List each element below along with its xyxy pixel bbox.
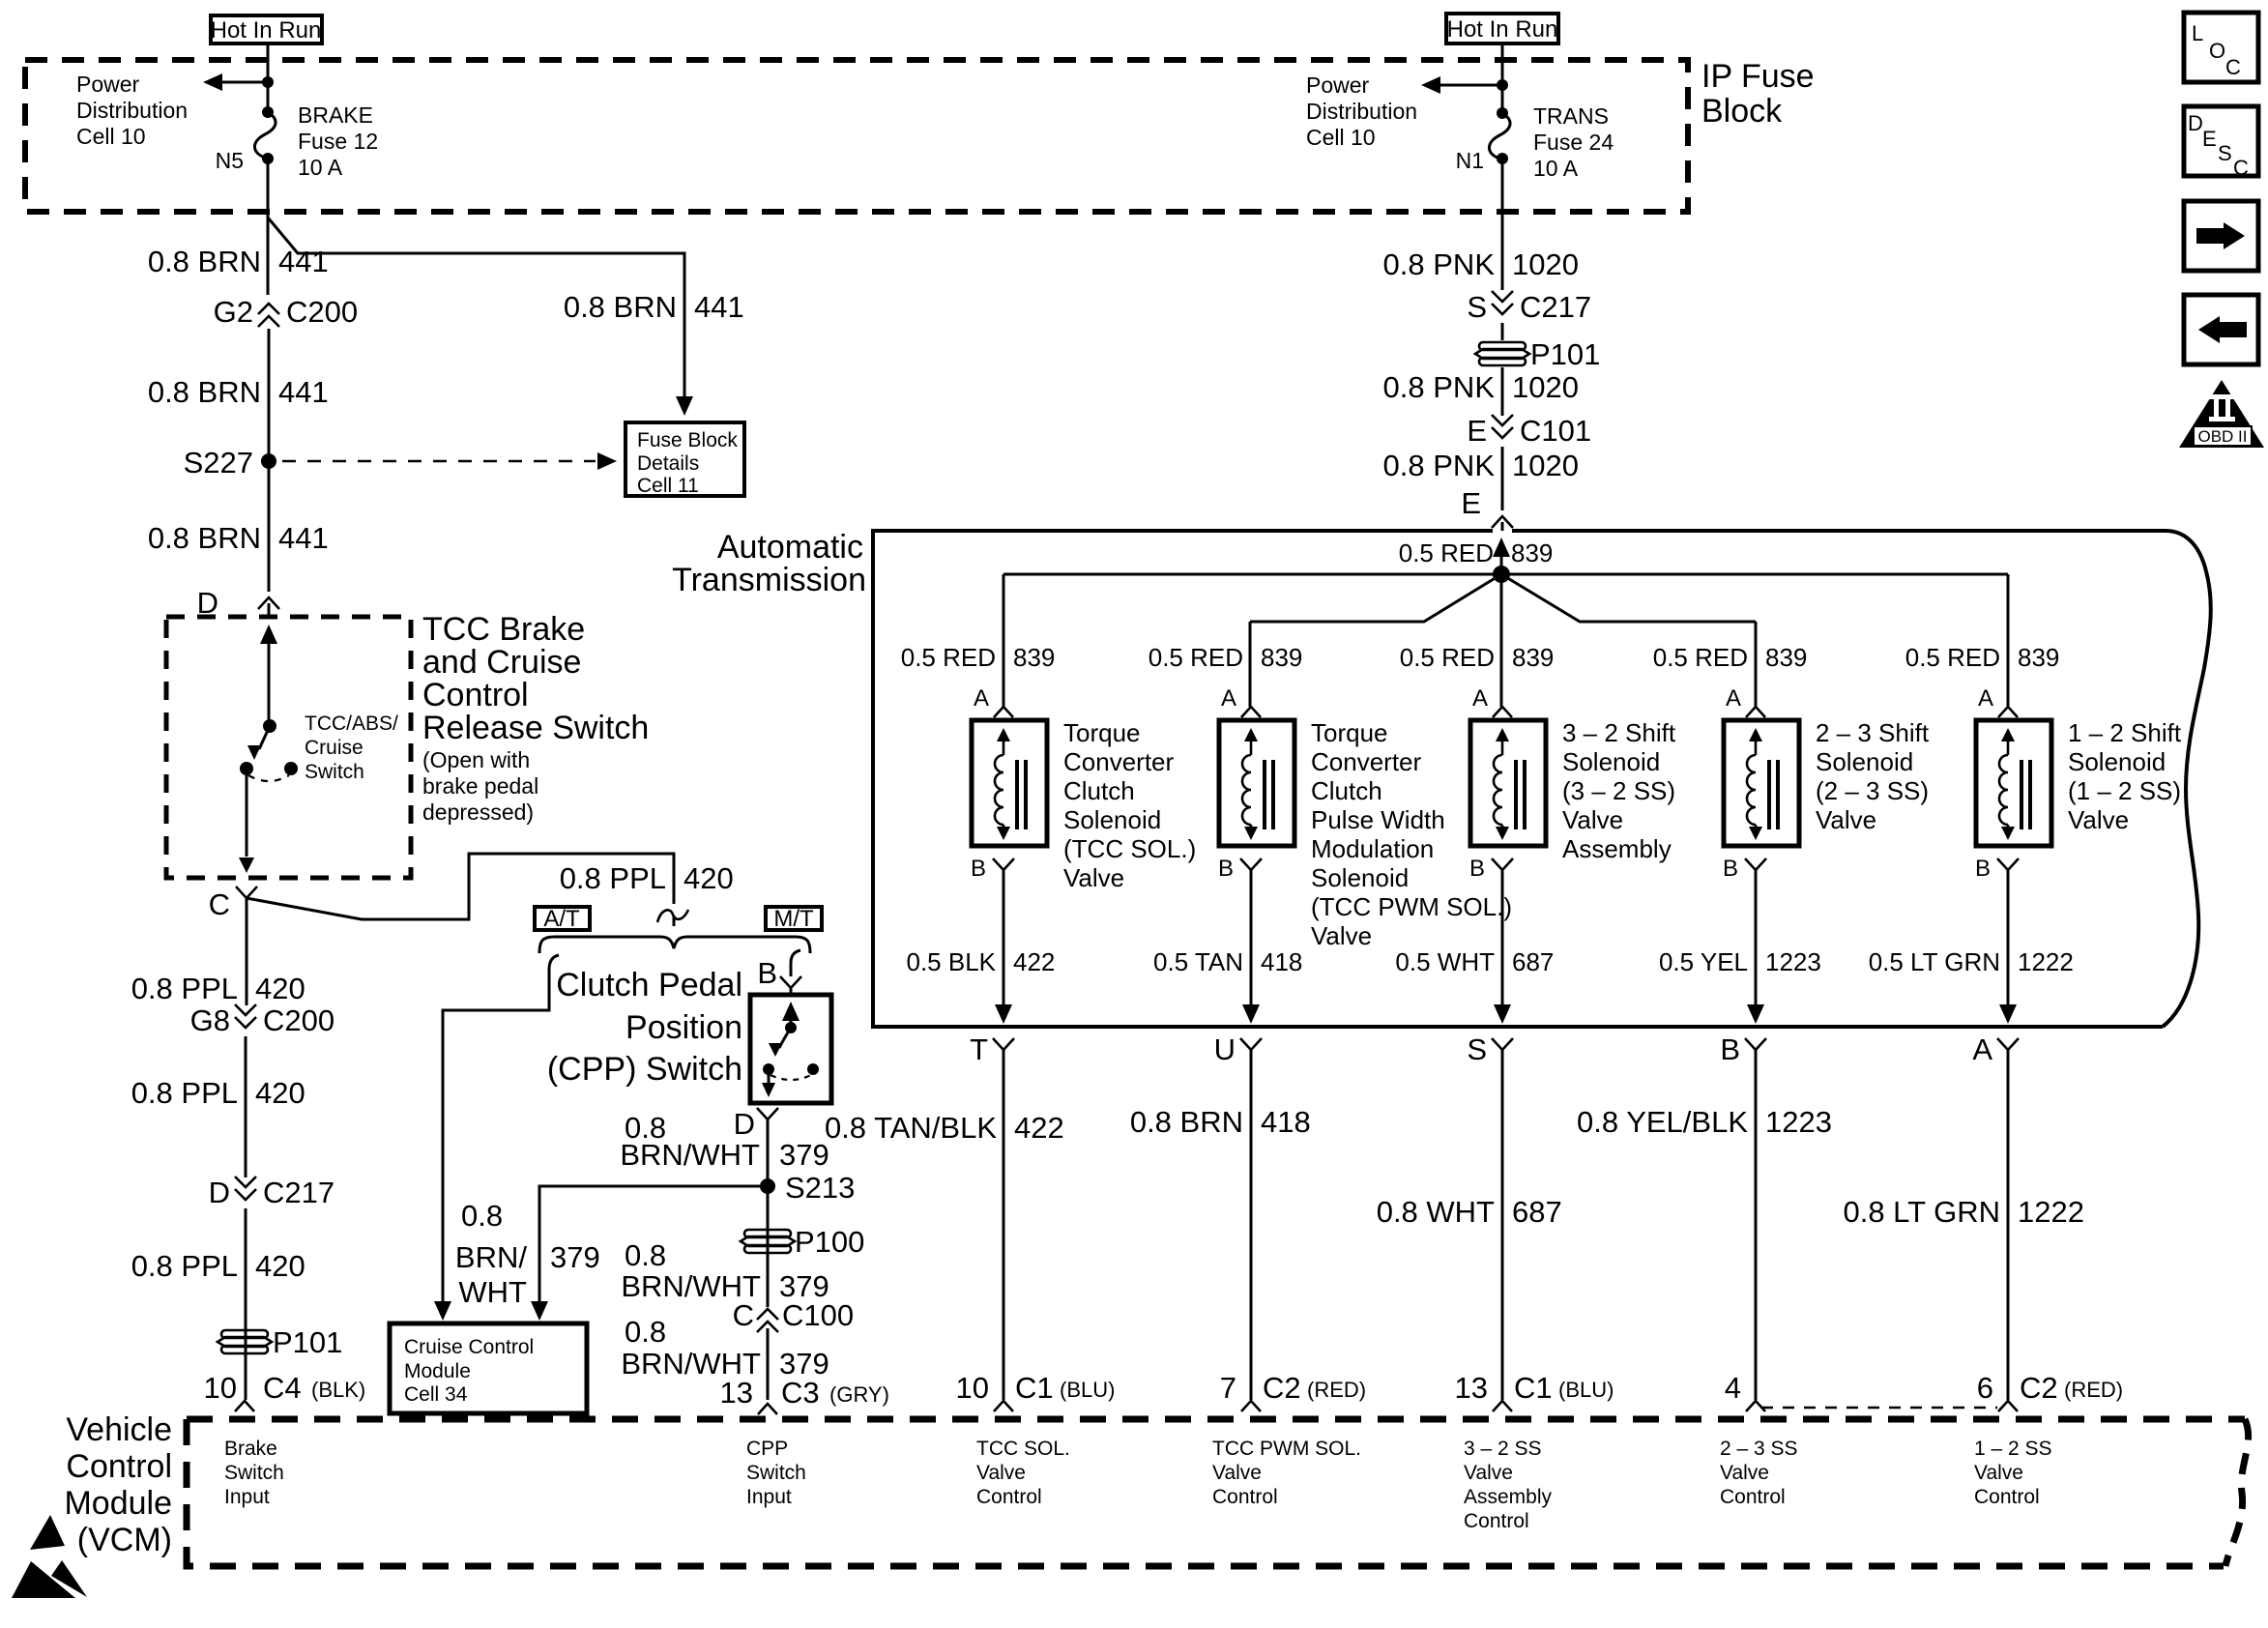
svg-text:A: A — [1726, 685, 1741, 712]
svg-text:13: 13 — [720, 1376, 753, 1410]
svg-text:Switch: Switch — [224, 1462, 284, 1484]
svg-text:Input: Input — [224, 1486, 270, 1508]
svg-text:10: 10 — [956, 1371, 989, 1405]
node: junction to Power Distribution — [262, 76, 274, 88]
switch pivot dot — [263, 719, 276, 733]
bus 0.5 RED horizontal — [1003, 573, 2008, 576]
svg-text:Hot In Run: Hot In Run — [211, 17, 322, 44]
svg-text:441: 441 — [278, 375, 329, 409]
svg-text:839: 839 — [1261, 643, 1302, 672]
svg-text:0.8 WHT: 0.8 WHT — [1377, 1195, 1495, 1229]
svg-text:7: 7 — [1220, 1371, 1236, 1405]
wire TCC PWM solenoid to case — [1250, 870, 1253, 1007]
A/T tag box — [535, 907, 590, 930]
svg-text:T: T — [970, 1032, 988, 1066]
wire break squiggle — [657, 910, 688, 922]
svg-text:C217: C217 — [1520, 290, 1591, 324]
svg-text:0.8 BRN: 0.8 BRN — [564, 290, 677, 324]
wire 0.8 BRN 441 segment 1 — [267, 218, 270, 295]
svg-text:Valve: Valve — [2068, 805, 2129, 834]
wire pin B to VCM — [1755, 1050, 1758, 1400]
svg-text:A: A — [1221, 685, 1236, 712]
splice S213 — [760, 1178, 775, 1194]
dashed arrow S227 to Fuse Block Details — [282, 460, 596, 463]
svg-text:441: 441 — [278, 245, 329, 278]
svg-text:BRN/: BRN/ — [455, 1240, 527, 1274]
svg-text:6: 6 — [1977, 1371, 1993, 1405]
CPP output wire — [768, 1069, 771, 1083]
svg-text:422: 422 — [1013, 947, 1055, 976]
svg-text:418: 418 — [1261, 947, 1302, 976]
svg-text:Solenoid: Solenoid — [1562, 747, 1660, 776]
M/T branch wire to CPP switch — [791, 950, 800, 976]
svg-text:CPP: CPP — [746, 1438, 788, 1460]
Hot In Run box (left) — [211, 15, 322, 44]
svg-text:0.8 BRN: 0.8 BRN — [148, 245, 261, 278]
svg-text:839: 839 — [2018, 643, 2059, 672]
svg-text:B: B — [1218, 856, 1234, 882]
svg-text:(Open with: (Open with — [422, 747, 530, 772]
Vehicle Control Module dashed box — [187, 1416, 2245, 1423]
svg-text:0.8: 0.8 — [625, 1238, 666, 1272]
svg-text:Assembly: Assembly — [1562, 834, 1672, 863]
brace under A/T M/T — [539, 937, 810, 953]
svg-text:P101: P101 — [1530, 337, 1600, 371]
IP Fuse Block dashed box — [25, 60, 1688, 212]
svg-text:420: 420 — [255, 972, 305, 1005]
solenoid coil TCC solenoid — [972, 720, 1047, 846]
switch arm — [259, 726, 270, 749]
svg-text:3 – 2 SS: 3 – 2 SS — [1464, 1438, 1542, 1460]
svg-text:L: L — [2192, 21, 2203, 45]
switch TCC/ABS/Cruise: wire with up arrow — [268, 638, 271, 726]
wire 1-2 shift solenoid to case — [2007, 870, 2010, 1007]
Automatic Transmission box outline — [873, 531, 2163, 1027]
svg-text:Position: Position — [625, 1009, 742, 1046]
svg-text:0.8 PPL: 0.8 PPL — [131, 1249, 238, 1283]
svg-text:Automatic: Automatic — [717, 529, 863, 566]
switch throw dashed arc — [248, 775, 289, 781]
svg-text:Power: Power — [1306, 73, 1370, 98]
svg-text:Assembly: Assembly — [1464, 1486, 1553, 1508]
Hot In Run box (right) — [1446, 14, 1558, 44]
svg-text:BRAKE: BRAKE — [298, 102, 373, 128]
CPP lower contact dot — [763, 1063, 774, 1075]
CPP switch arm — [779, 1028, 791, 1048]
svg-text:0.5 WHT: 0.5 WHT — [1395, 947, 1495, 976]
svg-text:Valve: Valve — [1212, 1462, 1262, 1484]
svg-text:0.5 RED: 0.5 RED — [1149, 643, 1243, 672]
svg-text:0.5 RED: 0.5 RED — [1905, 643, 2000, 672]
wire from Hot In Run down — [1501, 44, 1504, 113]
svg-text:brake pedal: brake pedal — [422, 773, 538, 799]
svg-text:C217: C217 — [263, 1176, 334, 1209]
svg-text:Control: Control — [422, 677, 529, 713]
svg-text:C200: C200 — [263, 1003, 334, 1037]
svg-text:Solenoid: Solenoid — [2068, 747, 2166, 776]
svg-text:3 – 2 Shift: 3 – 2 Shift — [1562, 718, 1676, 747]
svg-text:Cell 11: Cell 11 — [637, 475, 699, 497]
Cruise Control Module box — [390, 1323, 587, 1413]
svg-text:C1: C1 — [1015, 1371, 1054, 1405]
svg-text:C: C — [209, 887, 230, 921]
svg-text:839: 839 — [1512, 643, 1554, 672]
svg-text:441: 441 — [278, 521, 329, 555]
svg-text:Torque: Torque — [1063, 718, 1141, 747]
svg-text:and Cruise: and Cruise — [422, 644, 581, 681]
svg-text:TCC SOL.: TCC SOL. — [976, 1438, 1070, 1460]
svg-text:Cell 10: Cell 10 — [76, 124, 146, 149]
dashed link pin4 to pin6 — [1761, 1407, 1997, 1409]
svg-text:0.5 RED: 0.5 RED — [1653, 643, 1748, 672]
svg-text:Release Switch: Release Switch — [422, 710, 649, 746]
svg-text:0.5 YEL: 0.5 YEL — [1659, 947, 1748, 976]
solenoid coil TCC PWM solenoid — [1219, 720, 1294, 846]
svg-text:Clutch: Clutch — [1063, 776, 1135, 805]
svg-text:Valve: Valve — [1311, 921, 1372, 950]
svg-text:1020: 1020 — [1512, 449, 1579, 482]
splice S227 — [261, 453, 276, 469]
svg-text:Switch: Switch — [746, 1462, 806, 1484]
wire from fuse down, exits fuse block — [267, 159, 270, 218]
svg-text:1222: 1222 — [2018, 947, 2074, 976]
svg-text:Module: Module — [404, 1360, 471, 1382]
svg-text:Block: Block — [1701, 93, 1783, 130]
svg-text:Clutch: Clutch — [1311, 776, 1382, 805]
CPP switch up arrow — [790, 1013, 793, 1028]
svg-text:4: 4 — [1725, 1371, 1741, 1405]
svg-text:10: 10 — [204, 1371, 237, 1405]
wire pin T to VCM — [1003, 1050, 1005, 1400]
red feed bus node — [1493, 566, 1510, 583]
svg-text:Pulse Width: Pulse Width — [1311, 805, 1445, 834]
svg-text:0.8 BRN: 0.8 BRN — [1130, 1105, 1243, 1139]
svg-text:TCC/ABS/: TCC/ABS/ — [305, 712, 398, 735]
node: junction to Power Distribution (right) — [1497, 79, 1508, 91]
bus drops — [1003, 574, 1005, 707]
svg-text:P100: P100 — [795, 1225, 864, 1259]
svg-text:Input: Input — [746, 1486, 792, 1508]
svg-text:687: 687 — [1512, 947, 1554, 976]
svg-text:(RED): (RED) — [2064, 1378, 2123, 1402]
svg-text:OBD II: OBD II — [2197, 427, 2247, 446]
svg-text:1223: 1223 — [1765, 1105, 1832, 1139]
svg-text:depressed): depressed) — [422, 799, 534, 825]
wire from Hot In Run down into fuse block — [267, 44, 270, 112]
A/T branch wire to Cruise Control Module — [443, 955, 559, 1303]
solenoid coil 3-2 shift solenoid — [1470, 720, 1546, 846]
pass-through grommet P101 (left) — [218, 1330, 272, 1353]
svg-text:(BLU): (BLU) — [1558, 1378, 1614, 1402]
svg-text:IP Fuse: IP Fuse — [1701, 58, 1815, 95]
svg-text:B: B — [1975, 856, 1991, 882]
nav icon DESC — [2184, 106, 2258, 176]
svg-text:Control: Control — [66, 1448, 172, 1485]
nav icon left arrow — [2184, 295, 2258, 364]
svg-text:B: B — [1469, 856, 1485, 882]
CPP throw dashed arc — [771, 1075, 811, 1080]
switch lower contact dot — [240, 762, 253, 775]
svg-text:Transmission: Transmission — [672, 562, 866, 598]
svg-text:U: U — [1214, 1032, 1236, 1066]
svg-text:0.8 PNK: 0.8 PNK — [1383, 449, 1496, 482]
svg-text:Fuse Block: Fuse Block — [637, 429, 738, 451]
svg-text:S: S — [1467, 290, 1487, 324]
svg-text:Solenoid: Solenoid — [1063, 805, 1161, 834]
pass-through grommet P101 (right) — [1475, 342, 1529, 365]
wire below S213 — [767, 1186, 770, 1307]
svg-text:Converter: Converter — [1063, 747, 1174, 776]
svg-text:Vehicle: Vehicle — [66, 1411, 172, 1448]
svg-text:(3 – 2 SS): (3 – 2 SS) — [1562, 776, 1675, 805]
svg-text:0.8 PPL: 0.8 PPL — [560, 861, 666, 895]
svg-text:Control: Control — [1720, 1486, 1786, 1508]
svg-text:C1: C1 — [1514, 1371, 1553, 1405]
svg-text:379: 379 — [550, 1240, 600, 1274]
svg-text:D: D — [209, 1176, 230, 1209]
svg-text:Details: Details — [637, 452, 699, 475]
svg-text:(GRY): (GRY) — [829, 1382, 889, 1407]
Fuse Block Details box — [625, 422, 744, 496]
svg-text:(BLK): (BLK) — [311, 1378, 365, 1402]
svg-text:0.8 YEL/BLK: 0.8 YEL/BLK — [1577, 1105, 1748, 1139]
svg-text:TCC PWM SOL.: TCC PWM SOL. — [1212, 1438, 1361, 1460]
svg-text:S: S — [1467, 1032, 1487, 1066]
svg-text:Brake: Brake — [224, 1438, 277, 1460]
svg-text:Cruise: Cruise — [305, 737, 363, 759]
svg-text:B: B — [971, 856, 986, 882]
svg-text:0.8 BRN: 0.8 BRN — [148, 521, 261, 555]
svg-text:(TCC SOL.): (TCC SOL.) — [1063, 834, 1196, 863]
svg-text:Clutch Pedal: Clutch Pedal — [556, 967, 742, 1003]
svg-text:P101: P101 — [273, 1325, 342, 1359]
svg-text:N1: N1 — [1456, 148, 1484, 173]
svg-text:Modulation: Modulation — [1311, 834, 1434, 863]
svg-text:WHT: WHT — [458, 1275, 527, 1309]
solenoid coil 2-3 shift solenoid — [1724, 720, 1799, 846]
wire pin U to VCM — [1250, 1050, 1253, 1400]
svg-text:C2: C2 — [1263, 1371, 1301, 1405]
CPP alternate contact dot — [807, 1063, 819, 1075]
svg-text:839: 839 — [1013, 643, 1055, 672]
svg-text:1 – 2 Shift: 1 – 2 Shift — [2068, 718, 2182, 747]
svg-text:Control: Control — [1974, 1486, 2040, 1508]
wire 3-2 shift solenoid to case — [1501, 870, 1504, 1007]
svg-text:0.5 RED: 0.5 RED — [1399, 538, 1494, 567]
svg-text:Valve: Valve — [1464, 1462, 1513, 1484]
CPP upper contact dot — [785, 1022, 797, 1033]
svg-text:Switch: Switch — [305, 761, 364, 783]
svg-text:C100: C100 — [782, 1298, 854, 1332]
svg-text:Fuse 24: Fuse 24 — [1533, 130, 1614, 155]
svg-text:441: 441 — [694, 290, 744, 324]
svg-text:Power: Power — [76, 72, 140, 97]
svg-text:C101: C101 — [1520, 414, 1591, 448]
wire TCC solenoid to case — [1003, 870, 1005, 1007]
svg-text:TCC Brake: TCC Brake — [422, 611, 585, 648]
svg-text:0.5 RED: 0.5 RED — [1400, 643, 1495, 672]
solenoid coil 1-2 shift solenoid — [1976, 720, 2051, 846]
svg-text:TRANS: TRANS — [1533, 103, 1609, 129]
svg-text:687: 687 — [1512, 1195, 1562, 1229]
svg-text:B: B — [1720, 1032, 1740, 1066]
svg-text:D: D — [734, 1107, 755, 1141]
svg-text:A: A — [1472, 685, 1488, 712]
wire 0.8 PPL 420 down left column — [246, 898, 248, 1005]
svg-text:422: 422 — [1014, 1111, 1064, 1145]
svg-text:(VCM): (VCM) — [77, 1522, 172, 1558]
svg-text:Solenoid: Solenoid — [1311, 863, 1409, 892]
svg-text:418: 418 — [1261, 1105, 1311, 1139]
svg-text:Valve: Valve — [1816, 805, 1876, 834]
ESD warning symbol — [30, 1515, 65, 1550]
svg-text:(RED): (RED) — [1307, 1378, 1366, 1402]
svg-text:C200: C200 — [286, 295, 358, 329]
svg-text:G8: G8 — [190, 1003, 230, 1037]
svg-text:C4: C4 — [263, 1371, 302, 1405]
svg-text:1 – 2 SS: 1 – 2 SS — [1974, 1438, 2052, 1460]
svg-text:A/T: A/T — [543, 906, 580, 932]
nav icon LOC — [2184, 13, 2258, 82]
svg-text:Distribution: Distribution — [1306, 99, 1417, 124]
M/T tag box — [766, 907, 822, 930]
svg-text:Valve: Valve — [1063, 863, 1124, 892]
svg-text:E: E — [2202, 127, 2217, 151]
svg-text:C: C — [2225, 55, 2241, 79]
svg-text:A: A — [1978, 685, 1993, 712]
svg-text:420: 420 — [255, 1249, 305, 1283]
svg-text:839: 839 — [1765, 643, 1807, 672]
TCC Brake and Cruise Control Release Switch dashed box — [166, 617, 411, 878]
svg-text:0.8 TAN/BLK: 0.8 TAN/BLK — [825, 1111, 997, 1145]
svg-text:10 A: 10 A — [298, 155, 343, 180]
svg-text:13: 13 — [1455, 1371, 1488, 1405]
svg-text:Hot In Run: Hot In Run — [1447, 16, 1558, 43]
wire arrow to Power Distribution Cell 10 (right) — [1439, 84, 1502, 87]
svg-text:Converter: Converter — [1311, 747, 1421, 776]
svg-text:Valve: Valve — [1562, 805, 1623, 834]
svg-text:(CPP) Switch: (CPP) Switch — [547, 1051, 742, 1088]
svg-text:10 A: 10 A — [1533, 156, 1579, 181]
switch alternate contact dot — [284, 762, 298, 775]
svg-text:0.8 BRN: 0.8 BRN — [148, 375, 261, 409]
wire 0.8 BRN 441 segment 2 — [268, 329, 271, 461]
wire from C to CPP circuit — [247, 854, 674, 919]
svg-text:G2: G2 — [214, 295, 253, 329]
svg-text:Module: Module — [64, 1485, 172, 1522]
svg-text:420: 420 — [255, 1076, 305, 1110]
svg-text:N5: N5 — [216, 148, 244, 173]
svg-text:(1 – 2 SS): (1 – 2 SS) — [2068, 776, 2181, 805]
pass-through grommet P100 — [741, 1230, 795, 1253]
OBD II symbol — [2179, 380, 2264, 448]
svg-text:B: B — [757, 956, 777, 990]
svg-text:1020: 1020 — [1512, 370, 1579, 404]
svg-text:S227: S227 — [184, 446, 253, 480]
bus diagonals — [1250, 574, 1501, 622]
wire into transmission with up arrow — [1500, 551, 1503, 574]
svg-text:C2: C2 — [2020, 1371, 2058, 1405]
switch output wire — [246, 769, 248, 857]
svg-text:Distribution: Distribution — [76, 98, 188, 123]
svg-text:(TCC PWM SOL.): (TCC PWM SOL.) — [1311, 892, 1512, 921]
svg-text:O: O — [2209, 39, 2225, 63]
svg-text:C3: C3 — [781, 1376, 820, 1410]
svg-text:Valve: Valve — [976, 1462, 1026, 1484]
svg-text:1223: 1223 — [1765, 947, 1821, 976]
svg-text:2 – 3 Shift: 2 – 3 Shift — [1816, 718, 1930, 747]
svg-text:E: E — [1467, 414, 1487, 448]
svg-text:839: 839 — [1511, 538, 1553, 567]
svg-text:Valve: Valve — [1974, 1462, 2023, 1484]
CPP switch box — [750, 995, 831, 1103]
svg-text:0.8: 0.8 — [625, 1315, 666, 1349]
svg-text:0.5 RED: 0.5 RED — [901, 643, 996, 672]
svg-text:Torque: Torque — [1311, 718, 1388, 747]
svg-text:0.8 LT GRN: 0.8 LT GRN — [1843, 1195, 2000, 1229]
svg-text:Control: Control — [1212, 1486, 1278, 1508]
svg-text:0.5 LT GRN: 0.5 LT GRN — [1869, 947, 2000, 976]
fuse BRAKE Fuse 12 10A — [262, 106, 274, 118]
svg-text:Solenoid: Solenoid — [1816, 747, 1913, 776]
wire pin S to VCM — [1501, 1050, 1504, 1400]
wire branch to Fuse Block Details — [268, 218, 684, 398]
svg-text:0.8 PNK: 0.8 PNK — [1383, 247, 1496, 281]
svg-text:C: C — [733, 1298, 754, 1332]
svg-text:Cell 34: Cell 34 — [404, 1383, 468, 1406]
svg-text:Fuse 12: Fuse 12 — [298, 129, 378, 154]
wire pin A to VCM — [2007, 1050, 2010, 1400]
svg-text:0.5 BLK: 0.5 BLK — [906, 947, 996, 976]
svg-text:A: A — [1972, 1032, 1992, 1066]
svg-text:Control: Control — [1464, 1510, 1529, 1532]
svg-text:Cruise Control: Cruise Control — [404, 1336, 534, 1358]
svg-text:0.8: 0.8 — [461, 1199, 503, 1233]
fuse TRANS Fuse 24 10A — [1497, 107, 1508, 119]
nav icon right arrow — [2184, 201, 2258, 271]
svg-text:420: 420 — [683, 861, 734, 895]
svg-text:S: S — [2218, 141, 2232, 165]
svg-text:Control: Control — [976, 1486, 1042, 1508]
svg-text:C: C — [2233, 156, 2249, 180]
svg-text:S213: S213 — [785, 1171, 855, 1205]
svg-text:E: E — [1461, 486, 1481, 520]
svg-text:0.8 PPL: 0.8 PPL — [131, 972, 238, 1005]
svg-text:2 – 3 SS: 2 – 3 SS — [1720, 1438, 1798, 1460]
svg-text:0.5 TAN: 0.5 TAN — [1153, 947, 1243, 976]
wire S213 branch to Cruise Control Module — [539, 1186, 768, 1303]
svg-text:1222: 1222 — [2018, 1195, 2084, 1229]
svg-text:M/T: M/T — [773, 906, 814, 932]
svg-text:D: D — [2188, 111, 2203, 135]
svg-text:0.8 PPL: 0.8 PPL — [131, 1076, 238, 1110]
wire 0.8 PNK 1020 segment 1 — [1501, 159, 1504, 290]
svg-text:1020: 1020 — [1512, 247, 1579, 281]
wire arrow to Power Distribution Cell 10 — [220, 81, 268, 84]
svg-text:BRN/WHT: BRN/WHT — [620, 1138, 760, 1172]
wire 2-3 shift solenoid to case — [1755, 870, 1758, 1007]
svg-text:(2 – 3 SS): (2 – 3 SS) — [1816, 776, 1929, 805]
wire 0.8 BRN 441 segment 3 — [268, 461, 271, 592]
svg-text:0.8 PNK: 0.8 PNK — [1383, 370, 1496, 404]
svg-text:Cell 10: Cell 10 — [1306, 125, 1376, 150]
svg-text:Valve: Valve — [1720, 1462, 1769, 1484]
svg-text:B: B — [1723, 856, 1738, 882]
svg-text:(BLU): (BLU) — [1060, 1378, 1115, 1402]
svg-text:A: A — [974, 685, 989, 712]
svg-text:379: 379 — [779, 1138, 829, 1172]
